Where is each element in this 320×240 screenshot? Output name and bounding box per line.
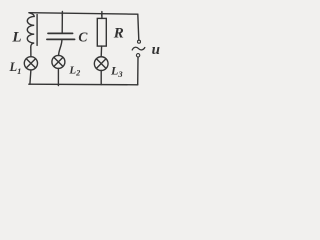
wire right upper (138, 14, 139, 40)
lamp L3 (94, 57, 108, 71)
wire top (29, 13, 138, 15)
capacitor C top plate (48, 32, 73, 34)
resistor R top lead (101, 15, 103, 19)
capacitor C top lead (61, 14, 63, 33)
svg-text:R: R (113, 25, 124, 41)
wire lamp L1 to bottom (30, 70, 31, 84)
resistor R bottom lead (100, 46, 102, 57)
svg-text:L3: L3 (110, 64, 123, 79)
wire lamp L2 to bottom (57, 68, 59, 85)
svg-text:L: L (11, 30, 21, 46)
wire lamp L3 to bottom (100, 70, 102, 84)
lamp L2 (52, 55, 65, 68)
node junction C (61, 11, 63, 15)
capacitor C bottom plate (47, 38, 75, 40)
node junction R (101, 12, 103, 16)
svg-text:L2: L2 (68, 65, 80, 78)
resistor R body (97, 18, 106, 46)
inductor L core line (36, 15, 38, 46)
wire bottom (29, 83, 138, 86)
svg-text:C: C (78, 30, 88, 45)
svg-text:L1: L1 (9, 60, 22, 76)
wire right lower (137, 57, 139, 85)
capacitor C bottom lead (59, 40, 62, 56)
inductor L coil (27, 13, 34, 48)
wire L to lamp L1 (30, 47, 32, 56)
AC source u (132, 40, 145, 57)
lamp L1 (24, 57, 37, 70)
svg-text:u: u (152, 42, 160, 58)
